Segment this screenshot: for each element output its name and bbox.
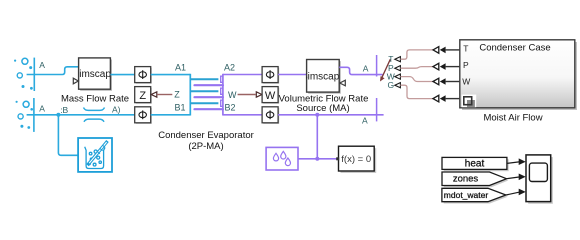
svg-text:W: W — [265, 90, 276, 102]
input arrowheads (hollow+filled pairs) and port stubs — [433, 47, 460, 102]
block Z (zone sensor) — [135, 87, 152, 104]
beaker cup — [85, 147, 105, 169]
svg-text:P: P — [463, 60, 469, 70]
wire source output to node A — [339, 67, 382, 74]
bubbles — [89, 152, 92, 155]
wire zones to scope — [507, 177, 520, 179]
purple coil fingers — [195, 85, 223, 109]
wire MFR out to phi block — [110, 74, 134, 76]
svg-text:A1: A1 — [175, 62, 186, 72]
svg-text:heat: heat — [465, 158, 485, 169]
signal wire T — [400, 50, 433, 59]
tag heat — [442, 157, 509, 171]
Z connection wire — [157, 94, 173, 96]
svg-text:Source (MA): Source (MA) — [296, 103, 349, 114]
svg-text:f(x) = 0: f(x) = 0 — [341, 154, 371, 165]
block Mass Flow Rate (Simscape) — [73, 58, 117, 91]
wire junction B2 down to solver row — [316, 115, 318, 159]
svg-text:Condenser Case: Condenser Case — [479, 43, 550, 54]
probe arrow — [382, 59, 391, 78]
probe output hollow triangles — [395, 57, 401, 88]
unconnected port triangle on right edge — [340, 80, 346, 86]
arrowhead mdot_water — [519, 189, 526, 196]
tag mdot_water — [442, 188, 508, 203]
solver configuration block f(x)=0 — [339, 146, 377, 173]
block phi bottom-left — [135, 107, 152, 124]
row T — [433, 47, 439, 54]
arrowhead zones — [519, 174, 526, 181]
signal wire W — [400, 77, 433, 82]
row G — [433, 95, 439, 102]
droplet 1 — [273, 153, 278, 161]
node A bar (bottom-right) — [376, 98, 378, 121]
wire row B from label to phi block — [27, 114, 135, 116]
tag zones — [442, 172, 508, 187]
subsystem badge icon — [462, 95, 477, 108]
svg-text::B: :B — [60, 105, 68, 115]
unconnected port B of Mass Flow Rate (hollow triangle) — [73, 78, 78, 84]
svg-text:A: A — [39, 104, 45, 114]
svg-text:A: A — [362, 116, 368, 126]
wire mdot_water to scope — [506, 192, 519, 195]
rod tick marks — [98, 145, 106, 154]
signal wire P — [400, 67, 433, 69]
block Volumetric Flow Rate Source (Simscape) — [301, 60, 345, 94]
wire A into Mass Flow Rate source — [27, 67, 79, 75]
svg-text:Z: Z — [174, 90, 180, 100]
cyan coil fingers — [190, 79, 218, 103]
W port wire — [238, 94, 256, 96]
solver port square — [336, 157, 339, 160]
svg-text:Moist Air Flow: Moist Air Flow — [483, 112, 542, 123]
junction node on B2 wire — [315, 113, 319, 117]
svg-text:Condenser Evaporator: Condenser Evaporator — [158, 130, 254, 141]
purple header bar — [222, 74, 224, 116]
subsystem Moist Air Flow — [460, 40, 577, 110]
block phi top-left — [135, 67, 152, 84]
wire phi to Volumetric source — [278, 74, 307, 76]
connection-label bar (bottom-left) — [33, 98, 35, 132]
block W sensor — [262, 87, 279, 104]
wire heat to scope — [507, 162, 519, 164]
Z port hollow triangle — [151, 92, 157, 97]
svg-text:Mass Flow Rate: Mass Flow Rate — [61, 94, 129, 105]
rod core highlight — [89, 142, 106, 163]
svg-text:Z: Z — [139, 90, 146, 102]
svg-text:(2P-MA): (2P-MA) — [188, 141, 223, 152]
connection-label bar (top-left) — [33, 58, 35, 91]
exchanger cyan header bar — [189, 74, 191, 116]
svg-text:A: A — [39, 60, 45, 70]
arrowhead heat — [519, 158, 526, 165]
moist air dots icon (top-left) — [14, 58, 33, 89]
row P — [433, 63, 439, 70]
svg-text:W: W — [462, 76, 470, 86]
wire B2 long to right — [278, 114, 384, 116]
droplet 3 — [285, 158, 290, 166]
W hollow triangle into W block — [256, 92, 262, 97]
scope block — [526, 155, 553, 204]
svg-text:A2: A2 — [224, 62, 235, 72]
block phi top-right — [262, 67, 279, 84]
svg-text:mdot_water: mdot_water — [444, 190, 489, 200]
wire phi to exchanger B1 — [151, 114, 191, 116]
junction node on solver row — [315, 157, 319, 161]
moist air dots icon (bottom-left) — [16, 101, 34, 129]
block moisture source (droplets) — [266, 147, 298, 170]
svg-text:zones: zones — [453, 173, 479, 184]
local restriction icon (venturi arcs) — [84, 108, 105, 111]
svg-text:W: W — [228, 90, 237, 100]
wire droplet block to solver — [298, 158, 337, 160]
purple wraps around cyan finger tips — [221, 76, 223, 106]
signal wire G — [400, 85, 433, 98]
block fluid properties (beaker icon) — [78, 138, 112, 172]
svg-text:G: G — [387, 80, 394, 90]
svg-text:B2: B2 — [224, 102, 235, 112]
wire A2 to right phi — [223, 74, 262, 76]
svg-text:B1: B1 — [174, 102, 185, 112]
svg-text:T: T — [463, 43, 468, 53]
droplet 2 — [281, 151, 286, 159]
svg-text:A): A) — [112, 104, 121, 114]
svg-text:A: A — [363, 63, 369, 73]
node A bar (top-right) — [376, 55, 378, 77]
block phi bottom-right — [262, 107, 279, 124]
wire B2 to right phi — [223, 114, 262, 116]
wire phi to exchanger A1 — [151, 74, 191, 76]
row W — [433, 78, 439, 85]
stir rod / thermometer — [88, 141, 108, 165]
wire down to fluid properties block — [58, 115, 78, 156]
junction node — [56, 113, 60, 117]
